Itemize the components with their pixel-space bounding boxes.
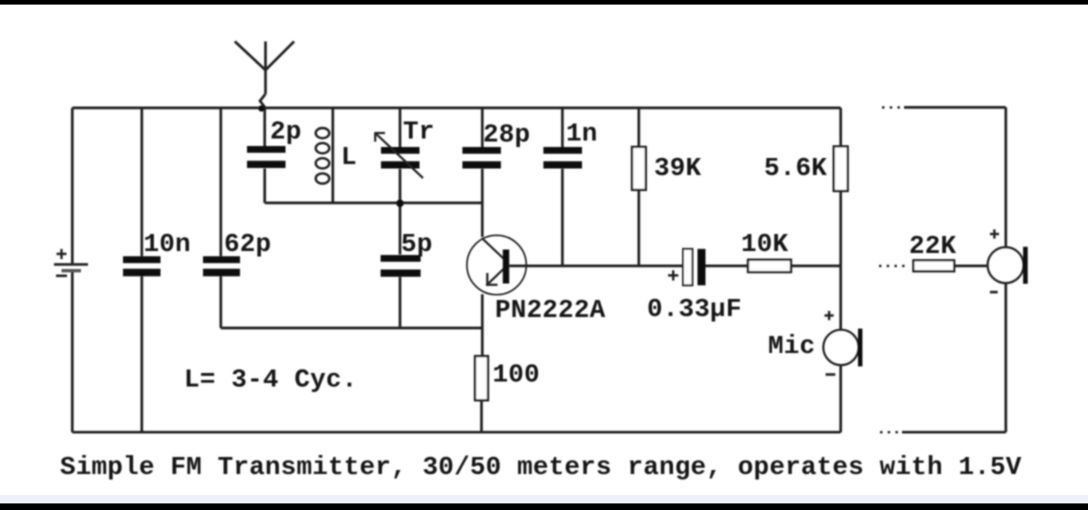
svg-text:Simple FM Transmitter, 30/50 m: Simple FM Transmitter, 30/50 meters rang… xyxy=(60,452,1022,482)
svg-text:100: 100 xyxy=(493,360,540,390)
svg-text:10K: 10K xyxy=(741,229,789,259)
svg-text:PN2222A: PN2222A xyxy=(495,295,606,325)
svg-text:22K: 22K xyxy=(909,231,957,261)
svg-text:5p: 5p xyxy=(401,229,433,259)
svg-text:0.33µF: 0.33µF xyxy=(647,294,742,324)
svg-text:L: L xyxy=(341,142,357,172)
svg-text:39K: 39K xyxy=(654,153,702,183)
svg-text:62p: 62p xyxy=(224,229,271,259)
svg-text:L= 3-4 Cyc.: L= 3-4 Cyc. xyxy=(184,365,357,395)
svg-text:5.6K: 5.6K xyxy=(764,153,827,183)
svg-text:Tr: Tr xyxy=(403,117,435,147)
svg-text:Mic: Mic xyxy=(768,331,815,361)
svg-text:10n: 10n xyxy=(144,229,191,259)
svg-text:1n: 1n xyxy=(566,118,598,148)
svg-text:28p: 28p xyxy=(483,119,530,149)
svg-text:2p: 2p xyxy=(270,117,302,147)
